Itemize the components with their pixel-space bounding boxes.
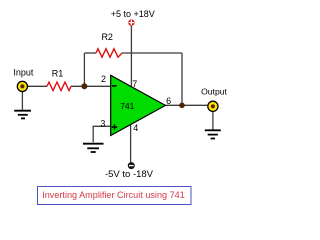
svg-text:Output: Output — [201, 86, 227, 96]
svg-text:Inverting Amplifier Circuit us: Inverting Amplifier Circuit using 741 — [42, 190, 185, 200]
svg-text:R2: R2 — [101, 32, 113, 42]
svg-text:-5V to -18V: -5V to -18V — [105, 169, 154, 180]
svg-text:R1: R1 — [52, 68, 64, 78]
svg-text:Input: Input — [13, 68, 34, 78]
svg-text:4: 4 — [133, 123, 138, 133]
svg-text:741: 741 — [120, 101, 134, 111]
svg-text:7: 7 — [132, 79, 137, 89]
svg-text:2: 2 — [101, 74, 106, 84]
svg-text:6: 6 — [166, 96, 171, 106]
svg-text:3: 3 — [100, 118, 105, 128]
svg-text:+5 to +18V: +5 to +18V — [111, 9, 155, 19]
